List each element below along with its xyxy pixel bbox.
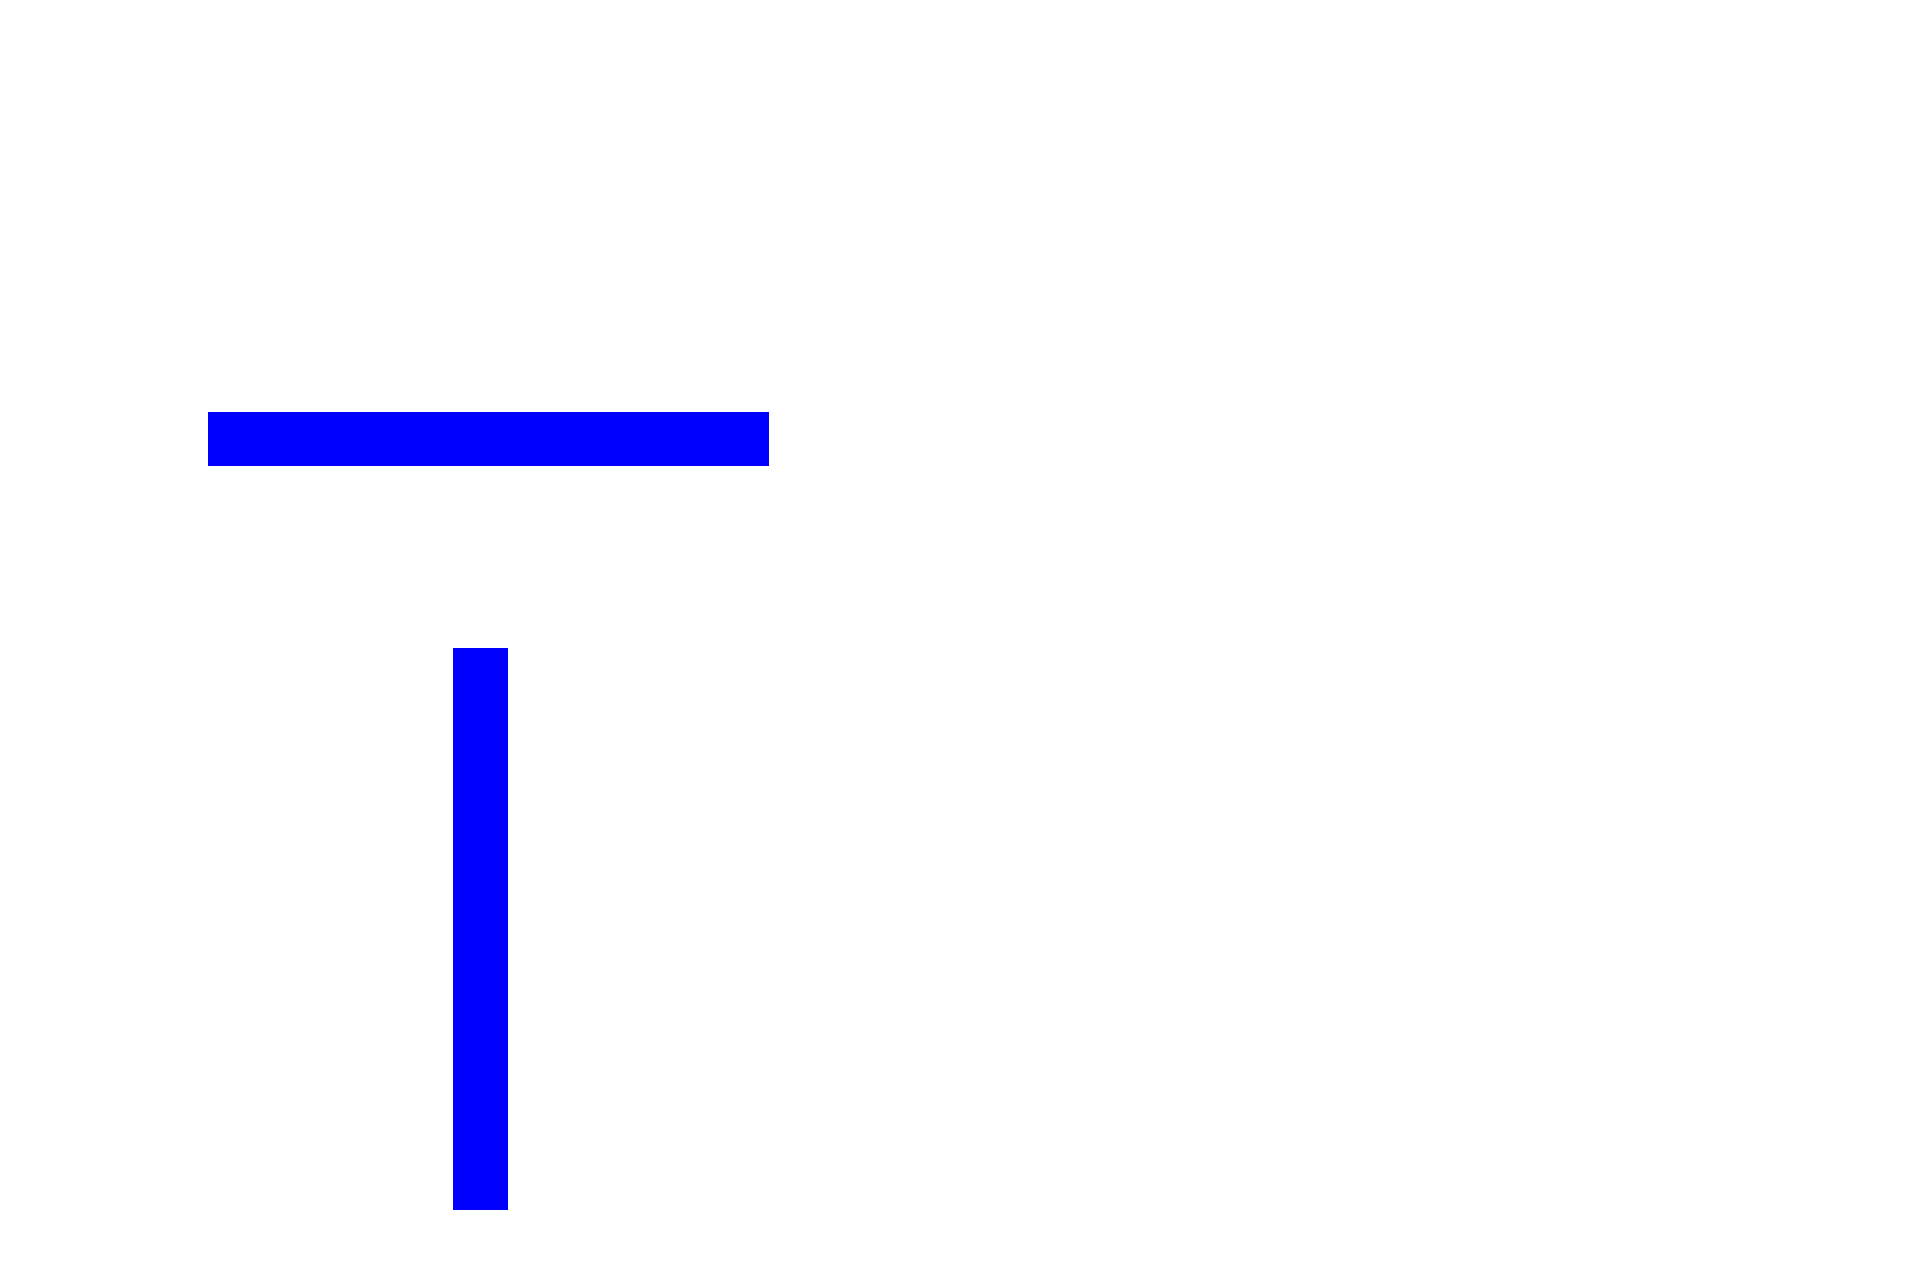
vertical blue bar <box>453 648 508 1210</box>
horizontal blue bar <box>208 412 769 466</box>
